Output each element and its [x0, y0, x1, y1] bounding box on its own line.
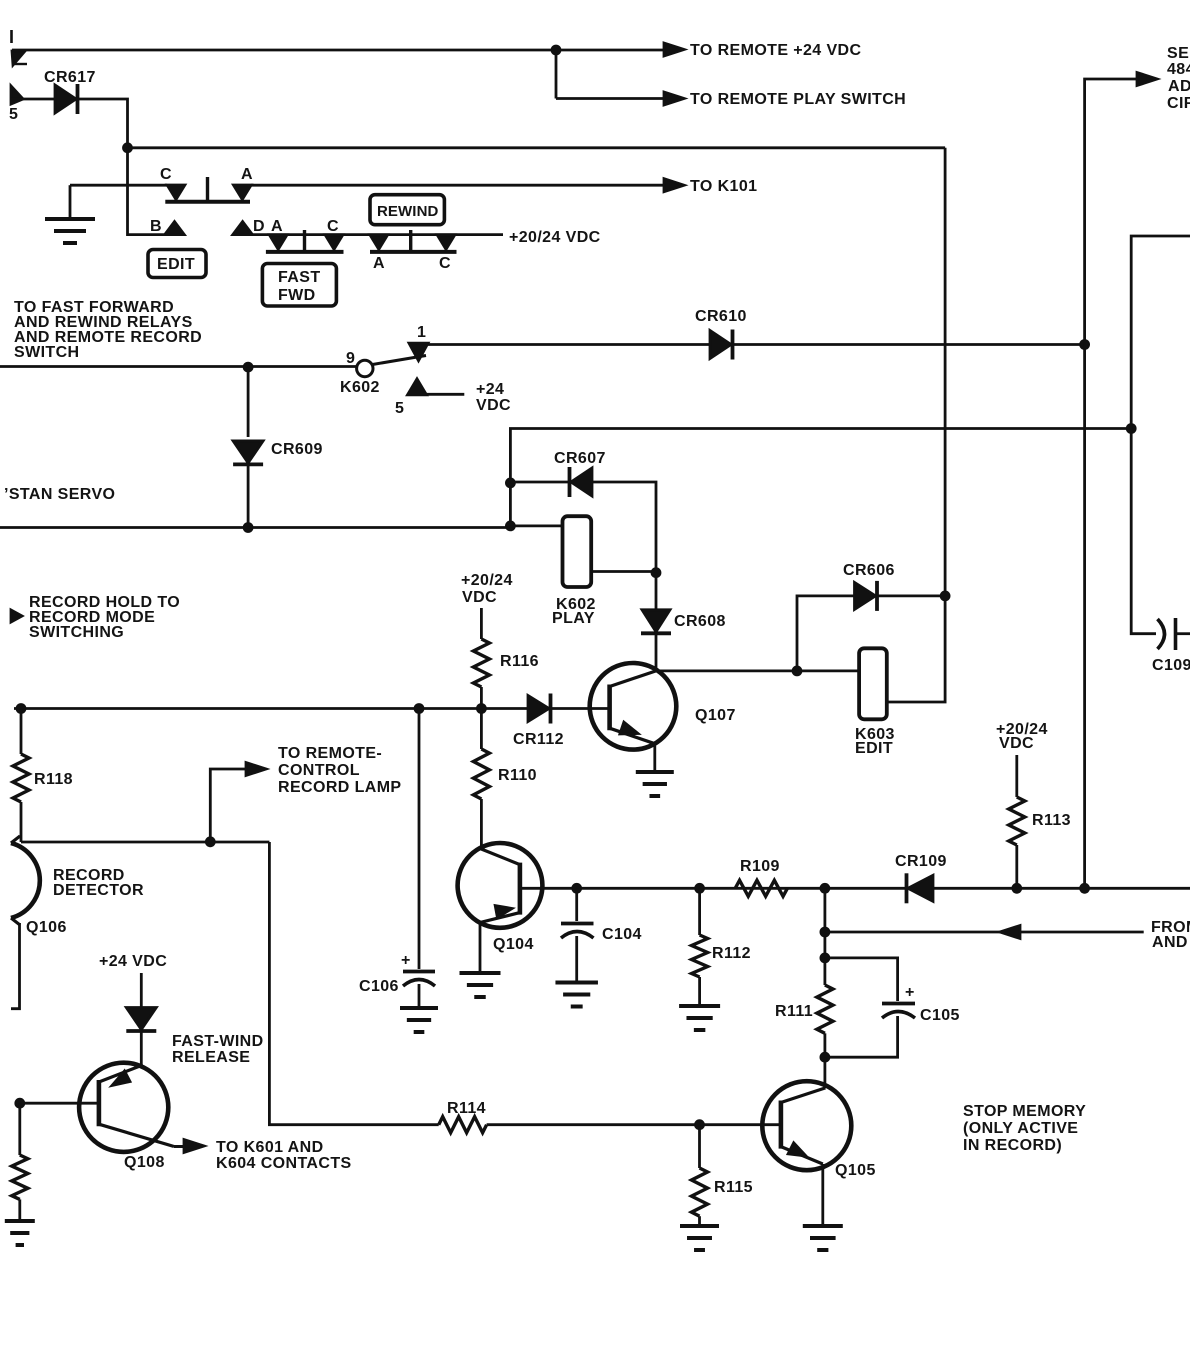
svg-text:SEE: SEE — [1167, 45, 1190, 62]
svg-text:+: + — [401, 952, 410, 969]
wire: play coil right lead — [591, 570, 656, 573]
wire: CR609 cathode down to capstan servo wire — [247, 465, 250, 528]
svg-text:CR617: CR617 — [44, 69, 96, 86]
svg-text:CR608: CR608 — [674, 613, 726, 630]
node: junction capstan servo wire — [243, 523, 253, 533]
svg-text:TO REMOTE-: TO REMOTE- — [278, 745, 382, 762]
svg-text:RELEASE: RELEASE — [172, 1049, 250, 1066]
node: junction C104 — [572, 883, 582, 893]
node: junction CR610 wire to tall vertical — [1080, 340, 1090, 350]
wire: D contact along fast-fwd and rewind contacts to +20/24 VDC — [251, 233, 503, 236]
wire: from contact A to K101 arrow — [251, 184, 666, 187]
wire: CR606 cathode to vertical — [877, 595, 945, 598]
ground: under R115 — [680, 1224, 719, 1228]
wire: C106 to ground — [418, 984, 421, 1008]
svg-text:CR606: CR606 — [843, 562, 895, 579]
svg-text:CIF: CIF — [1167, 95, 1190, 112]
svg-text:R112: R112 — [712, 945, 751, 962]
svg-text:IN RECORD): IN RECORD) — [963, 1137, 1062, 1154]
wire: Q108 emitter to arrow — [174, 1145, 185, 1148]
svg-text:C: C — [327, 218, 339, 235]
node: junction R116/R110/CR112 — [477, 704, 487, 714]
relay contact FAST FWD: A contact triangle — [269, 235, 287, 250]
svg-text:C: C — [439, 255, 451, 272]
svg-text:+24 VDC: +24 VDC — [99, 953, 167, 970]
wire: from junction down to edit relay contact B — [128, 148, 167, 235]
wire: Q105 emitter to ground — [821, 1164, 824, 1226]
wire: R116 to main node — [480, 687, 483, 709]
resistor R115 branch — [698, 1125, 701, 1168]
svg-text:FAST-WIND: FAST-WIND — [172, 1033, 264, 1050]
wire: R110 to Q104 collector — [480, 799, 483, 849]
svg-text:AND: AND — [1152, 934, 1188, 951]
wire: Q106 emitter lead with foot — [11, 923, 20, 1009]
wire: +20/24 to R113 — [1015, 755, 1018, 797]
node: junction tall vertical bottom — [1080, 883, 1090, 893]
svg-text:Q104: Q104 — [493, 936, 534, 953]
transistor Q108 — [79, 1063, 168, 1152]
relay REWIND label box — [370, 195, 444, 225]
wire: R114 to Q105 base — [487, 1123, 781, 1126]
relay contact: EDIT relay contact B (normally open) — [165, 222, 185, 235]
wire: CR608 to Q107 collector node — [655, 633, 658, 671]
wire: diode to Q108 — [140, 1031, 143, 1066]
node: junction CR606 / drop wire — [940, 591, 950, 601]
ground: Q107 emitter — [636, 770, 674, 774]
wire: Q108 base from left node — [20, 1102, 99, 1105]
wire: switch K602 row from left edge — [0, 365, 357, 368]
ground: top-left ground symbol — [69, 185, 72, 219]
wire: R111 column from R109 node — [824, 888, 827, 985]
relay contact FAST FWD: armature bar and tick — [266, 250, 344, 254]
svg-text:Q106: Q106 — [26, 919, 67, 936]
svg-text:C106: C106 — [359, 978, 399, 995]
wire: play coil left lead — [510, 525, 562, 528]
capacitor C106 branch — [418, 709, 421, 970]
svg-text:EDIT: EDIT — [157, 256, 195, 273]
svg-text:R115: R115 — [714, 1179, 753, 1196]
capacitor C109 branch from upper bus — [1131, 429, 1156, 634]
resistor R113 — [1009, 797, 1025, 845]
svg-text:VDC: VDC — [462, 589, 497, 606]
wire: from record interlock arrow (points left) — [825, 931, 1144, 934]
wire: Q107 emitter down to ground — [653, 742, 656, 772]
svg-text:CR607: CR607 — [554, 450, 606, 467]
wire: R112 to ground — [698, 977, 701, 1006]
resistor R118 branch — [20, 709, 23, 755]
relay contact K601: armature bar and tick — [165, 200, 250, 204]
svg-text:R109: R109 — [740, 858, 780, 875]
transistor Q106 (record detector, cut at left edge) — [11, 843, 40, 918]
wire: branch down to remote play switch — [555, 50, 558, 99]
svg-text:FAST: FAST — [278, 269, 321, 286]
node: junction R113 bottom — [1012, 883, 1022, 893]
svg-text:VDC: VDC — [999, 735, 1034, 752]
svg-text:SWITCHING: SWITCHING — [29, 624, 124, 641]
svg-text:B: B — [150, 218, 162, 235]
wire: top-left entry tick — [10, 30, 13, 43]
switch K602: contact 1 triangle — [409, 343, 428, 361]
resistor R109 in series (drawn on bus) — [735, 880, 787, 896]
resistor (unlabeled) at bottom left — [18, 1103, 21, 1155]
svg-text:CR609: CR609 — [271, 441, 323, 458]
svg-text:R113: R113 — [1032, 812, 1071, 829]
svg-text:484: 484 — [1167, 61, 1190, 78]
svg-text:(ONLY ACTIVE: (ONLY ACTIVE — [963, 1120, 1078, 1137]
svg-text:R114: R114 — [447, 1100, 486, 1117]
relay contact K601: C contact triangle — [167, 185, 185, 200]
node: junction C105 top — [820, 953, 830, 963]
wire: Q104 emitter to ground — [479, 923, 482, 974]
wire: branch to remote +24 vdc arrow — [556, 49, 666, 52]
wire: Q106 node to record lamp branch corner — [21, 841, 269, 844]
capacitor C109 straight plate — [1174, 618, 1178, 650]
svg-text:5: 5 — [395, 400, 404, 417]
svg-text:SWITCH: SWITCH — [14, 344, 80, 361]
ground: under R112 — [679, 1004, 720, 1008]
node: junction to CR609 — [243, 362, 253, 372]
svg-text:+24: +24 — [476, 381, 504, 398]
svg-text:RECORD LAMP: RECORD LAMP — [278, 779, 402, 796]
node: junction C106 branch — [414, 704, 424, 714]
switch K602: pivot circle pin 9 — [357, 360, 373, 376]
diode CR (fast-wind release) — [126, 1008, 156, 1030]
relay contact FAST FWD: C contact triangle — [325, 235, 343, 250]
switch K602: blade — [373, 356, 427, 365]
resistor R114 on base row — [439, 1117, 487, 1133]
diode CR109 (pointing left) — [908, 875, 933, 901]
ground: under Q105 — [803, 1224, 843, 1228]
diode CR610 — [710, 331, 731, 359]
node: junction K602 play right / CR608 — [651, 568, 661, 578]
wire: tall vertical with see-adjacent-circuit arrow — [1085, 79, 1137, 888]
diode CR112 — [528, 696, 549, 722]
node: junction left end — [16, 704, 26, 714]
svg-text:FWD: FWD — [278, 287, 316, 304]
svg-text:AD: AD — [1168, 78, 1190, 95]
wire: vertical down to K603 coil right lead — [887, 596, 945, 702]
wire: C105 bottom lead — [825, 1016, 898, 1057]
node: junction top wire — [551, 45, 561, 55]
transistor Q105 — [762, 1081, 851, 1170]
resistor R110 — [480, 709, 483, 750]
wire: long horizontal to right vertical drop — [128, 146, 946, 149]
wire: R113 to bus — [1015, 845, 1018, 888]
svg-text:CR109: CR109 — [895, 853, 947, 870]
node: junction K603/CR606 left — [792, 666, 802, 676]
node: junction record lamp branch — [205, 837, 215, 847]
node: junction R111 / C105 / Q105 collector — [820, 1052, 830, 1062]
capacitor C106 plates — [403, 970, 435, 974]
wire: contact 5 to +24 VDC label — [427, 393, 465, 396]
node: junction from-record arrow wire — [820, 927, 830, 937]
svg-text:REWIND: REWIND — [377, 203, 438, 220]
wire: Q104 base row main bus — [520, 887, 1190, 890]
resistor R112 branch — [698, 888, 701, 935]
wire: +20/24 VDC to R116 — [480, 608, 483, 639]
capacitor C109 curved plate — [1158, 619, 1165, 649]
transistor Q104 — [458, 843, 543, 928]
svg-text:D: D — [253, 218, 265, 235]
svg-text:+: + — [905, 984, 914, 1001]
diode CR606 — [855, 582, 876, 609]
svg-text:R116: R116 — [500, 653, 539, 670]
node: junction R109 / R111 column — [820, 883, 830, 893]
resistor R111 — [817, 985, 833, 1033]
svg-text:DETECTOR: DETECTOR — [53, 882, 144, 899]
wire: vertical drop to K603 net — [944, 148, 947, 596]
note arrow: record hold — [11, 610, 22, 622]
wire: into diode CR617 — [11, 98, 54, 101]
wire: ground to contact C of K601 contact — [70, 184, 167, 187]
relay contact REWIND: armature bar and tick — [370, 250, 457, 254]
capacitor C104 branch — [575, 888, 578, 921]
svg-text:’STAN SERVO: ’STAN SERVO — [4, 486, 115, 503]
ground: bottom-left — [5, 1219, 35, 1223]
svg-text:A: A — [373, 255, 385, 272]
relay contact REWIND: A contact triangle — [370, 235, 388, 250]
svg-text:+20/24 VDC: +20/24 VDC — [509, 229, 601, 246]
svg-text:STOP MEMORY: STOP MEMORY — [963, 1103, 1086, 1120]
note arrow: to remote-control record lamp — [210, 769, 247, 842]
wire: main record-hold bus — [14, 707, 610, 710]
wire: capstan servo horizontal wire — [0, 526, 511, 529]
svg-text:C109: C109 — [1152, 657, 1190, 674]
transistor Q107 — [590, 663, 677, 750]
svg-text:A: A — [271, 218, 283, 235]
svg-text:C: C — [160, 166, 172, 183]
switch K602: contact 5 triangle (+24 VDC) — [408, 379, 427, 395]
wire: cut arrow mark at left end of top wire — [12, 51, 25, 65]
svg-text:R110: R110 — [498, 767, 537, 784]
relay contact: FAST FWD contact D (normally open) — [233, 222, 253, 235]
wire: C105 top lead — [825, 958, 898, 1001]
relay contact K601: A contact triangle — [233, 185, 251, 200]
wire: CR607 junction down to play relay junction — [509, 483, 512, 526]
svg-text:TO REMOTE PLAY SWITCH: TO REMOTE PLAY SWITCH — [690, 91, 906, 108]
svg-text:C104: C104 — [602, 926, 642, 943]
svg-text:5: 5 — [9, 106, 18, 123]
svg-text:K604 CONTACTS: K604 CONTACTS — [216, 1155, 352, 1172]
svg-text:CONTROL: CONTROL — [278, 762, 360, 779]
wire: to Q105 collector — [824, 1057, 827, 1088]
svg-text:R118: R118 — [34, 771, 73, 788]
relay FAST FWD label box — [262, 264, 336, 307]
svg-text:1: 1 — [417, 324, 426, 341]
diode CR609 on vertical branch — [247, 367, 250, 437]
relay EDIT label box — [148, 250, 206, 278]
svg-text:Q107: Q107 — [695, 707, 736, 724]
svg-text:PLAY: PLAY — [552, 610, 595, 627]
ground: under Q104 — [460, 971, 501, 975]
svg-text:K602: K602 — [340, 379, 380, 396]
svg-text:TO K601 AND: TO K601 AND — [216, 1139, 324, 1156]
node: junction K602 play relay left — [506, 521, 516, 531]
wire: +24 VDC to diode — [140, 973, 143, 1009]
resistor R116 — [473, 639, 489, 687]
svg-text:C105: C105 — [920, 1007, 960, 1024]
wire: contact 1 to CR610 row — [428, 343, 1085, 346]
wire: CR606 branch up from K603 node — [797, 596, 854, 671]
node: junction R115 — [695, 1120, 705, 1130]
node: junction CR617 branch — [123, 143, 133, 153]
wire: C109 right lead — [1176, 632, 1190, 635]
svg-text:CR112: CR112 — [513, 731, 564, 748]
svg-text:TO K101: TO K101 — [690, 178, 757, 195]
wire: top horizontal +24 VDC wire — [12, 49, 556, 52]
node: junction Q108 base / R117 — [15, 1098, 25, 1108]
wire: R111 to Q105 node — [824, 1033, 827, 1057]
wire: CR607 to corner down to CR608 net — [592, 482, 656, 573]
ground: under C104 — [555, 981, 598, 985]
node: junction CR607 anode — [506, 478, 516, 488]
svg-text:R111: R111 — [775, 1003, 813, 1020]
wire: top-right bus from upper bus corner — [1131, 236, 1190, 429]
wire: Q107 collector to K603 net — [656, 670, 859, 673]
svg-text:EDIT: EDIT — [855, 740, 893, 757]
wire: long drop to R114 row — [269, 842, 438, 1125]
wire: R115 to ground — [698, 1216, 701, 1226]
svg-text:Q108: Q108 — [124, 1154, 165, 1171]
svg-text:Q105: Q105 — [835, 1162, 876, 1179]
relay contact REWIND: C contact triangle — [437, 235, 455, 250]
svg-text:TO REMOTE +24 VDC: TO REMOTE +24 VDC — [690, 42, 861, 59]
node: junction R112 — [695, 883, 705, 893]
diode CR608 on vertical — [655, 573, 658, 611]
wire: CR617 cathode to corner, down to junction — [78, 99, 128, 148]
wire: resistor to ground — [18, 1199, 21, 1221]
svg-text:VDC: VDC — [476, 397, 511, 414]
connector: cut arrow entering at left for CR617 — [11, 86, 23, 104]
wire: C104 to ground — [575, 936, 578, 983]
svg-text:A: A — [241, 166, 253, 183]
ground: under C106 — [400, 1006, 438, 1010]
relay coil K603 EDIT box — [859, 648, 887, 719]
diode CR617 — [55, 85, 76, 113]
svg-text:CR610: CR610 — [695, 308, 747, 325]
wire: R118 to Q106 — [20, 802, 23, 842]
svg-text:+20/24: +20/24 — [461, 572, 513, 589]
relay coil K602 PLAY box — [563, 516, 592, 587]
node: junction upper bus to C109 drop — [1126, 424, 1136, 434]
svg-text:9: 9 — [346, 350, 355, 367]
diode CR607 (pointing left) — [510, 481, 569, 484]
wire: corner from CR607 net to right (upper bus) — [510, 429, 1131, 483]
